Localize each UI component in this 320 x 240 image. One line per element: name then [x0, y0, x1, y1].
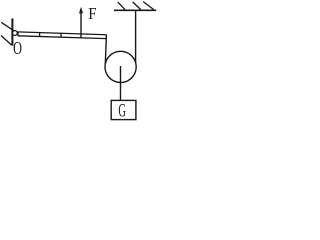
svg-text:F: F	[88, 5, 96, 23]
svg-text:O: O	[13, 40, 22, 59]
svg-text:G: G	[118, 101, 126, 121]
